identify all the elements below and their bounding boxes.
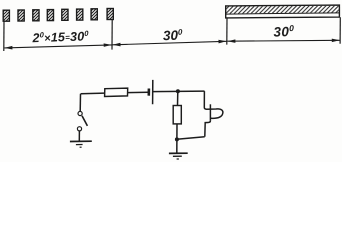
svg-text:300: 300 xyxy=(273,23,295,40)
svg-text:300: 300 xyxy=(163,28,184,44)
svg-text:20×15=300: 20×15=300 xyxy=(31,29,89,46)
